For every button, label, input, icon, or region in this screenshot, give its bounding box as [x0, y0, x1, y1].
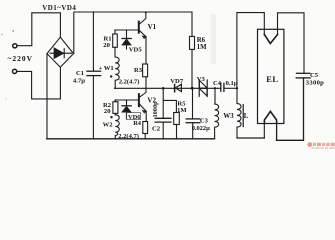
- AC terminal 1: [13, 44, 17, 48]
- svg-text:C3: C3: [200, 118, 209, 125]
- svg-text:4.7µ: 4.7µ: [73, 78, 85, 85]
- L core bar: [242, 105, 244, 127]
- diac V3: [198, 80, 200, 96]
- bottom filament: [264, 111, 276, 123]
- svg-text:R3: R3: [134, 67, 143, 74]
- midpoint wire: [115, 87, 221, 89]
- wire lamp top-right to C5 top: [278, 13, 305, 73]
- winding W2: [115, 115, 119, 139]
- svg-text:C1: C1: [76, 70, 84, 77]
- resistor R6 column: [191, 12, 193, 36]
- capacitor C4: [220, 83, 222, 91]
- svg-text:W3: W3: [223, 113, 234, 120]
- lamp bottom-right pin wire to C5 bottom: [277, 78, 304, 140]
- svg-text:C2: C2: [152, 126, 161, 133]
- svg-text:V1: V1: [148, 23, 157, 31]
- svg-text:EL: EL: [266, 75, 278, 84]
- resistor R4: [143, 122, 148, 134]
- svg-text:2.2(4.7): 2.2(4.7): [118, 133, 139, 140]
- scan specks: [12, 30, 14, 32]
- svg-text:R4: R4: [133, 120, 142, 127]
- svg-text:C5: C5: [310, 72, 319, 79]
- wire L bottom to lamp left pin: [237, 137, 264, 139]
- resistor R2: [114, 100, 116, 102]
- zener VD5: [126, 30, 128, 38]
- svg-text:VD5: VD5: [129, 46, 143, 53]
- bottom bus: [47, 138, 215, 140]
- polarity dot W2: [110, 116, 112, 118]
- bridge diode symbol: [50, 48, 72, 58]
- wire bridge left vertex down: [46, 54, 48, 139]
- svg-text:W2: W2: [103, 122, 114, 129]
- svg-text:3300p: 3300p: [306, 80, 324, 87]
- capacitor C3: [192, 88, 194, 119]
- capacitor C5: [297, 72, 310, 74]
- svg-text:L: L: [244, 113, 249, 120]
- resistor R5: [163, 100, 176, 112]
- svg-text:VD1~VD4: VD1~VD4: [42, 5, 76, 12]
- lamp bottom-left pin to bus: [263, 124, 265, 139]
- resistor R1: [114, 30, 116, 34]
- red watermark bottom right: [307, 142, 335, 149]
- wire bridge right vertex to top rail: [74, 12, 192, 54]
- svg-text:~220V: ~220V: [8, 54, 34, 63]
- svg-text:1M: 1M: [197, 44, 207, 51]
- resistor R3: [143, 64, 148, 77]
- top filament: [264, 35, 277, 44]
- scan artifact streak: [211, 14, 217, 64]
- svg-text:20: 20: [104, 108, 111, 115]
- bridge rectifier VD1-VD4 diamond: [47, 37, 74, 67]
- winding W1: [115, 57, 119, 88]
- fluorescent lamp EL tube: [258, 29, 284, 123]
- svg-text:W1: W1: [104, 65, 114, 72]
- wire terminal1 to rail: [17, 13, 60, 46]
- winding W3: [214, 87, 216, 89]
- node dot C4/L/lamp: [236, 87, 238, 89]
- svg-text:20: 20: [103, 42, 110, 49]
- capacitor C2: [162, 88, 164, 118]
- node dot C2: [162, 87, 165, 90]
- transistor V1: [138, 22, 140, 33]
- polarity dot W1: [110, 75, 112, 77]
- diode VD7: [175, 84, 181, 91]
- node line V1 base: [115, 29, 138, 31]
- svg-text:1000p: 1000p: [152, 101, 159, 118]
- svg-text:2.2(4.7): 2.2(4.7): [119, 78, 140, 85]
- inductor L: [236, 88, 238, 103]
- capacitor C1: [92, 12, 94, 71]
- wire midpoint junction up to lamp top-left: [237, 13, 264, 89]
- node dot midpoint/R6/C3: [191, 87, 194, 90]
- svg-text:+: +: [99, 65, 103, 72]
- svg-text:0.022µ: 0.022µ: [192, 125, 210, 132]
- transistor V2: [140, 88, 146, 97]
- svg-text:V3: V3: [197, 76, 206, 83]
- wire terminal2 lower loop: [17, 67, 60, 99]
- svg-text:1M: 1M: [177, 107, 187, 114]
- svg-text:0.1µ: 0.1µ: [226, 80, 238, 87]
- svg-text:VD7: VD7: [170, 78, 184, 85]
- AC terminal 2: [13, 69, 17, 73]
- zener VD6: [126, 100, 128, 105]
- svg-text:C4: C4: [213, 80, 222, 87]
